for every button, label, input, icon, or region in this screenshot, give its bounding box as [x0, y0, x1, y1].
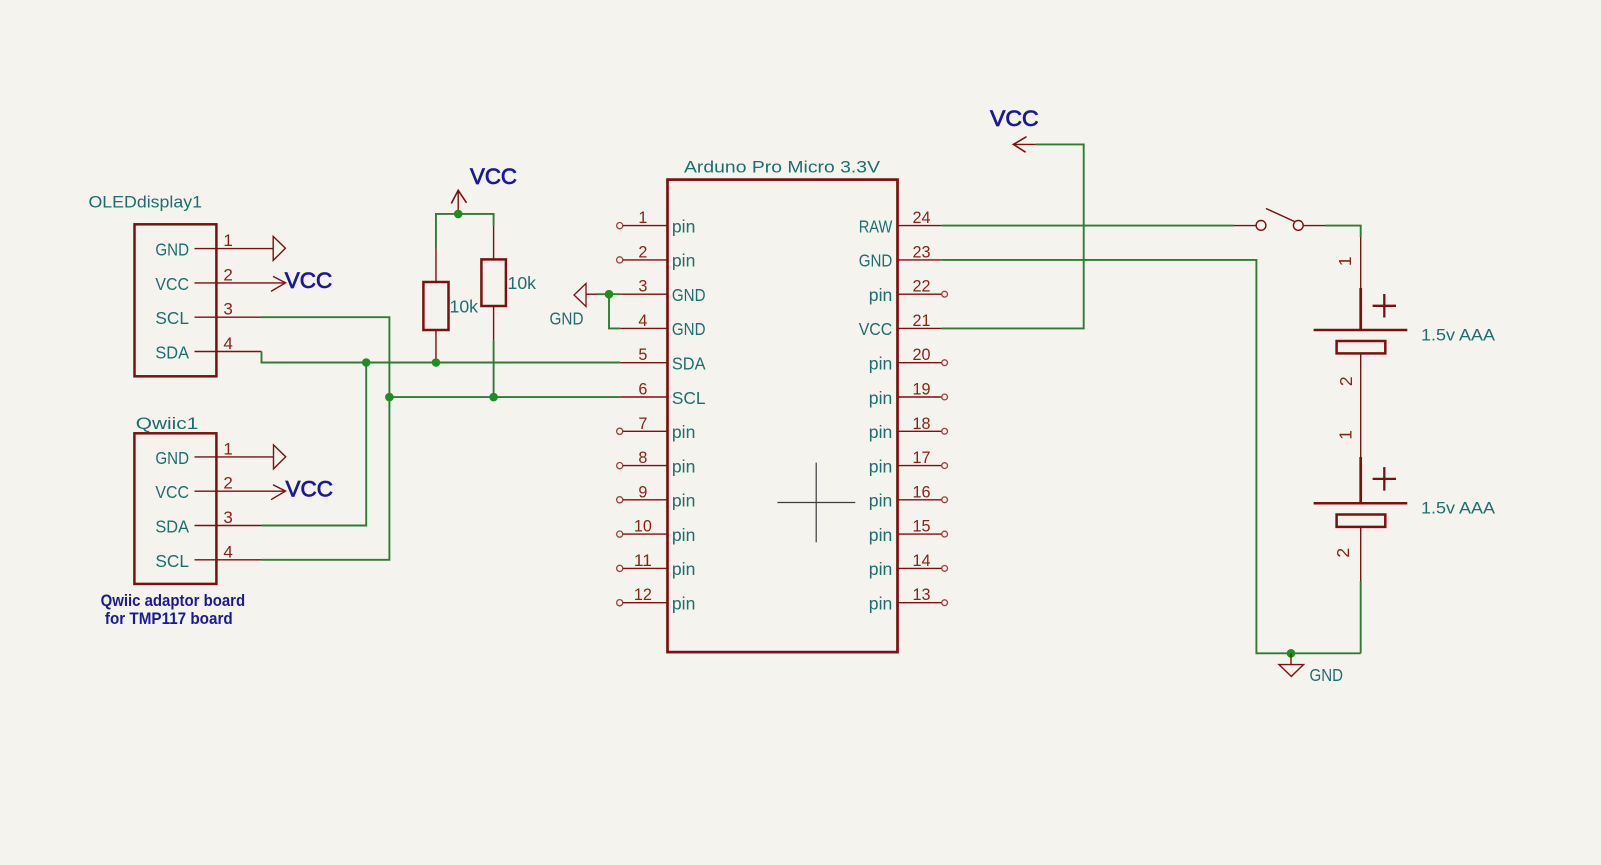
- VCC power chevron on Qwiic pin 2: [271, 485, 286, 500]
- U1 pin 9 name pin: [672, 491, 696, 511]
- battery BT1 value 1.5v AAA: [1421, 326, 1496, 345]
- battery BT2 value 1.5v AAA: [1421, 499, 1496, 518]
- U1 pin 24 name RAW: [859, 216, 893, 236]
- U1 pin 11 name pin: [672, 559, 696, 579]
- svg-text:pin: pin: [869, 285, 893, 305]
- U1 pin 6 name SCL: [672, 388, 706, 408]
- GND net label near Arduino pin 3: [550, 309, 584, 329]
- svg-text:VCC: VCC: [286, 476, 334, 501]
- U1 pin 21 name VCC: [859, 319, 893, 339]
- OLEDdisplay1 pin 3 SCL line: [195, 316, 262, 318]
- svg-text:4: 4: [638, 311, 647, 330]
- svg-text:pin: pin: [869, 456, 893, 476]
- U1 pin 6 line: [620, 396, 667, 398]
- U1 pin 16 line: [898, 497, 947, 503]
- U1 pin 12 number: [634, 585, 652, 604]
- svg-text:SDA: SDA: [155, 343, 189, 363]
- U1 pin 22 line: [898, 291, 947, 297]
- svg-text:GND: GND: [672, 285, 706, 305]
- U1 pin 10 number: [634, 517, 652, 536]
- svg-text:10k: 10k: [508, 273, 537, 293]
- U1 pin 6 number: [638, 380, 647, 399]
- U1 pin 14 number: [913, 551, 931, 570]
- resistor R2 top pin: [493, 226, 495, 260]
- anchor cross inside U1: [777, 463, 855, 543]
- svg-text:1: 1: [223, 231, 232, 250]
- resistor R2 value 10k: [508, 273, 537, 293]
- power symbol on OLED pin 1 (open triangle): [273, 236, 285, 260]
- svg-text:3: 3: [223, 300, 232, 319]
- U1 pin 14 name pin: [869, 559, 893, 579]
- OLEDdisplay1 pin 2 name VCC: [155, 274, 189, 294]
- svg-text:2: 2: [223, 265, 232, 284]
- svg-text:SDA: SDA: [672, 354, 706, 374]
- U1 pin 8 number: [638, 448, 647, 467]
- battery BT2 pin 1 number (vertical): [1336, 430, 1356, 440]
- svg-text:13: 13: [913, 585, 931, 604]
- svg-text:16: 16: [913, 482, 931, 501]
- svg-text:pin: pin: [672, 594, 696, 614]
- U1 pin 5 line: [620, 362, 667, 364]
- svg-text:14: 14: [913, 551, 931, 570]
- U1 pin 24 number: [913, 208, 931, 227]
- svg-text:15: 15: [913, 517, 931, 536]
- OLEDdisplay1 pin 3 number: [223, 300, 232, 319]
- U1 pin 18 name pin: [869, 422, 893, 442]
- junction at VCC symbol: [454, 210, 463, 219]
- svg-text:pin: pin: [869, 491, 893, 511]
- U1 pin 18 number: [913, 414, 931, 433]
- svg-text:pin: pin: [672, 491, 696, 511]
- VCC power chevron on OLED pin 2: [271, 276, 286, 291]
- battery BT1 pin 2 stub to BT2 pin 1: [1360, 353, 1362, 457]
- Qwiic1 pin 1 GND line: [195, 456, 274, 458]
- U1 pin 2 line: [617, 257, 668, 263]
- battery BT1 pin 1 number (vertical): [1335, 256, 1355, 266]
- OLEDdisplay1 pin 4 name SDA: [155, 343, 189, 363]
- svg-text:20: 20: [913, 345, 931, 364]
- svg-text:4: 4: [223, 542, 232, 561]
- junction at GND symbol: [1287, 649, 1296, 658]
- GND arrow symbol (open triangle pointing left): [574, 284, 597, 307]
- U1 pin 1 name pin: [672, 216, 696, 236]
- battery BT2 pin 2 stub: [1360, 527, 1362, 581]
- svg-text:3: 3: [223, 508, 232, 527]
- svg-text:GND: GND: [672, 319, 706, 339]
- U1 pin 9 number: [638, 482, 647, 501]
- VCC power label top right: [990, 106, 1039, 131]
- U1 pin 5 number: [638, 345, 647, 364]
- svg-text:10: 10: [634, 517, 652, 536]
- Qwiic1 pin 3 name SDA: [155, 517, 189, 537]
- svg-text:1: 1: [223, 439, 232, 458]
- svg-text:for TMP117 board: for TMP117 board: [105, 610, 233, 628]
- U1 pin 3 number: [638, 277, 647, 296]
- svg-text:VCC: VCC: [470, 164, 517, 189]
- Qwiic1 pin 4 name SCL: [155, 551, 189, 571]
- svg-text:pin: pin: [672, 559, 696, 579]
- U1 pin 13 number: [913, 585, 931, 604]
- svg-text:12: 12: [634, 585, 652, 604]
- junction R2 to SCL net: [489, 393, 498, 402]
- U1 pin 19 name pin: [869, 388, 893, 408]
- OLEDdisplay1 pin 3 name SCL: [155, 308, 189, 328]
- U1 pin 16 name pin: [869, 491, 893, 511]
- U1 pin 17 name pin: [869, 456, 893, 476]
- OLEDdisplay1 pin 4 number: [223, 334, 232, 353]
- svg-text:6: 6: [638, 380, 647, 399]
- svg-text:7: 7: [638, 414, 647, 433]
- svg-text:GND: GND: [859, 251, 893, 271]
- U1 pin 4 line: [620, 327, 667, 329]
- svg-text:GND: GND: [155, 240, 189, 260]
- U1 pin 23 name GND: [859, 251, 893, 271]
- svg-text:2: 2: [638, 242, 647, 261]
- GND power symbol (open triangle down): [1279, 653, 1304, 676]
- U1 pin 7 number: [638, 414, 647, 433]
- svg-text:GND: GND: [155, 448, 189, 468]
- U1 pin 23 number: [913, 242, 931, 261]
- svg-text:2: 2: [223, 474, 232, 493]
- U1 pin 4 number: [638, 311, 647, 330]
- svg-text:GND: GND: [1310, 665, 1344, 685]
- svg-text:pin: pin: [869, 559, 893, 579]
- svg-text:Qwiic1: Qwiic1: [136, 414, 199, 433]
- svg-text:SCL: SCL: [155, 551, 189, 571]
- Qwiic1 pin 3 SDA line: [195, 525, 262, 527]
- svg-text:pin: pin: [672, 251, 696, 271]
- OLEDdisplay1 pin 2 VCC line: [195, 282, 286, 284]
- svg-text:pin: pin: [672, 525, 696, 545]
- U1 pin 11 line: [617, 565, 668, 571]
- svg-text:2: 2: [1333, 548, 1353, 558]
- wire Qwiic SDA up to SDA net: [262, 363, 366, 526]
- svg-text:SCL: SCL: [672, 388, 706, 408]
- U1 pin 13 line: [898, 600, 947, 606]
- svg-text:19: 19: [913, 380, 931, 399]
- IC U1 Arduino Pro Micro body: [668, 180, 898, 652]
- U1 pin 22 name pin: [869, 285, 893, 305]
- svg-text:Qwiic adaptor board: Qwiic adaptor board: [101, 592, 246, 610]
- svg-text:1: 1: [638, 208, 647, 227]
- wire GND to Arduino pin 3: [597, 293, 620, 295]
- U1 pin 1 number: [638, 208, 647, 227]
- svg-text:10k: 10k: [450, 297, 479, 317]
- svg-text:1: 1: [1335, 256, 1355, 266]
- Qwiic1 pin 1 number: [223, 439, 232, 458]
- U1 pin 8 name pin: [672, 456, 696, 476]
- svg-text:pin: pin: [672, 456, 696, 476]
- battery BT2 pin 2 number (vertical): [1333, 548, 1353, 558]
- junction on SDA net at Qwiic branch: [362, 358, 371, 367]
- U1 pin 12 line: [617, 600, 668, 606]
- Qwiic1 pin 2 name VCC: [155, 482, 189, 502]
- svg-text:22: 22: [913, 277, 931, 296]
- Qwiic1 pin 4 SCL line: [195, 559, 262, 561]
- U1 pin 21 line: [898, 327, 942, 329]
- U1 pin 17 line: [898, 463, 947, 469]
- U1 pin 10 line: [617, 531, 668, 537]
- wire GND pin23 down and to GND symbol: [942, 260, 1361, 653]
- svg-text:pin: pin: [869, 525, 893, 545]
- connector Qwiic1 reference label: [136, 414, 199, 433]
- U1 pin 10 name pin: [672, 525, 696, 545]
- U1 pin 8 line: [617, 463, 668, 469]
- U1 pin 13 name pin: [869, 594, 893, 614]
- battery BT1 symbol: [1314, 288, 1408, 353]
- connector Qwiic1 body: [134, 433, 216, 584]
- svg-text:VCC: VCC: [990, 106, 1039, 131]
- U1 pin 24 line: [898, 225, 942, 227]
- U1 pin 11 number: [634, 551, 652, 570]
- resistor R1 top pin: [435, 249, 437, 282]
- svg-text:24: 24: [913, 208, 931, 227]
- U1 pin 2 number: [638, 242, 647, 261]
- U1 pin 2 name pin: [672, 251, 696, 271]
- svg-text:1.5v AAA: 1.5v AAA: [1421, 499, 1496, 518]
- svg-text:8: 8: [638, 448, 647, 467]
- U1 pin 14 line: [898, 566, 947, 572]
- Qwiic1 pin 2 number: [223, 474, 232, 493]
- OLEDdisplay1 pin 1 number: [223, 231, 232, 250]
- svg-text:1: 1: [1336, 430, 1356, 440]
- U1 pin 5 name SDA: [672, 354, 706, 374]
- svg-text:VCC: VCC: [859, 319, 893, 339]
- battery BT1 pin 1 stub: [1360, 237, 1362, 288]
- Qwiic1 pin 1 name GND: [155, 448, 189, 468]
- U1 pin 21 number: [913, 311, 931, 330]
- svg-text:VCC: VCC: [155, 482, 189, 502]
- svg-text:GND: GND: [550, 309, 584, 329]
- Qwiic1 pin 4 number: [223, 542, 232, 561]
- svg-text:SCL: SCL: [155, 308, 189, 328]
- svg-text:pin: pin: [869, 594, 893, 614]
- svg-text:3: 3: [638, 277, 647, 296]
- U1 pin 15 name pin: [869, 525, 893, 545]
- resistor R1 bottom pin: [435, 330, 437, 363]
- wire RAW pin24 to switch: [942, 225, 1234, 227]
- svg-text:pin: pin: [869, 354, 893, 374]
- VCC power label at OLED pin 2: [285, 268, 333, 293]
- svg-text:17: 17: [913, 448, 931, 467]
- wire SCL net to Arduino pin6: [389, 396, 620, 398]
- wire switch to battery BT1 pin1: [1326, 226, 1361, 237]
- VCC power label at Qwiic pin 2: [286, 476, 334, 501]
- U1 pin 23 line: [898, 259, 942, 261]
- resistor R1 value 10k: [450, 297, 479, 317]
- connector J OLEDdisplay1 reference label: [89, 193, 203, 212]
- svg-text:VCC: VCC: [285, 268, 333, 293]
- U1 pin 20 line: [898, 360, 947, 366]
- svg-text:pin: pin: [672, 216, 696, 236]
- power symbol on Qwiic pin 1 (open triangle): [274, 445, 286, 469]
- svg-text:SDA: SDA: [155, 517, 189, 537]
- OLEDdisplay1 pin 4 SDA line: [195, 351, 262, 353]
- wire SDA from OLED pin4 jog down then to Arduino pin5: [262, 352, 621, 363]
- wire R2 bottom to SCL net: [493, 341, 495, 397]
- Qwiic1 pin 3 number: [223, 508, 232, 527]
- svg-text:9: 9: [638, 482, 647, 501]
- U1 pin 3 line: [620, 293, 667, 295]
- svg-text:1.5v AAA: 1.5v AAA: [1421, 326, 1496, 345]
- battery BT1 pin 2 number (vertical): [1336, 376, 1356, 386]
- U1 pin 4 name GND: [672, 319, 706, 339]
- U1 pin 19 number: [913, 380, 931, 399]
- U1 pin 15 number: [913, 517, 931, 536]
- svg-text:4: 4: [223, 334, 232, 353]
- annotation text for TMP117 board: [105, 610, 233, 628]
- svg-text:pin: pin: [869, 388, 893, 408]
- battery BT2 symbol: [1314, 457, 1408, 527]
- svg-text:OLEDdisplay1: OLEDdisplay1: [89, 193, 203, 212]
- svg-text:23: 23: [913, 242, 931, 261]
- connector OLEDdisplay1 body: [135, 224, 217, 376]
- VCC power symbol left-arrow top right: [1013, 137, 1036, 153]
- IC U1 Arduino Pro Micro title: [684, 158, 881, 177]
- junction on SCL net at Arduino branch: [385, 393, 394, 402]
- OLEDdisplay1 pin 2 number: [223, 265, 232, 284]
- U1 pin 17 number: [913, 448, 931, 467]
- VCC power symbol up-arrow above resistors: [451, 190, 466, 214]
- OLEDdisplay1 pin 1 name GND: [155, 240, 189, 260]
- svg-text:VCC: VCC: [155, 274, 189, 294]
- U1 pin 3 name GND: [672, 285, 706, 305]
- VCC power label above resistors: [470, 164, 517, 189]
- svg-text:18: 18: [913, 414, 931, 433]
- wire GND branch to Arduino pin 4: [609, 294, 620, 328]
- U1 pin 7 name pin: [672, 422, 696, 442]
- wire VCC to resistor tops: [436, 214, 494, 249]
- U1 pin 9 line: [617, 497, 668, 503]
- svg-text:pin: pin: [672, 422, 696, 442]
- svg-text:pin: pin: [869, 422, 893, 442]
- wire SCL from OLED pin3 down to Qwiic SCL: [262, 317, 390, 560]
- U1 pin 20 name pin: [869, 354, 893, 374]
- svg-text:21: 21: [913, 311, 931, 330]
- wire BT2 pin2 down to GND rail: [1360, 581, 1362, 653]
- svg-text:5: 5: [638, 345, 647, 364]
- GND label at bottom right: [1310, 665, 1344, 685]
- svg-text:11: 11: [634, 551, 652, 570]
- svg-text:RAW: RAW: [859, 216, 893, 236]
- U1 pin 1 line: [617, 223, 668, 229]
- resistor R1 body: [423, 282, 448, 330]
- U1 pin 7 line: [617, 428, 668, 434]
- OLEDdisplay1 pin 1 GND line: [195, 248, 274, 250]
- resistor R2 body: [481, 259, 506, 306]
- wire VCC pin21 up to VCC symbol: [942, 144, 1084, 328]
- U1 pin 19 line: [898, 394, 947, 400]
- junction at GND arrow: [605, 290, 614, 299]
- svg-text:Arduno Pro Micro 3.3V: Arduno Pro Micro 3.3V: [684, 158, 881, 177]
- annotation text Qwiic adaptor board: [101, 592, 246, 610]
- Qwiic1 pin 2 VCC line: [195, 490, 286, 492]
- U1 pin 20 number: [913, 345, 931, 364]
- U1 pin 15 line: [898, 531, 947, 537]
- U1 pin 22 number: [913, 277, 931, 296]
- svg-text:2: 2: [1336, 376, 1356, 386]
- switch SW1 (SPST open): [1234, 209, 1326, 231]
- U1 pin 16 number: [913, 482, 931, 501]
- U1 pin 18 line: [898, 428, 947, 434]
- U1 pin 12 name pin: [672, 594, 696, 614]
- resistor R2 bottom pin: [493, 306, 495, 341]
- junction R1 to SDA net: [432, 358, 441, 367]
